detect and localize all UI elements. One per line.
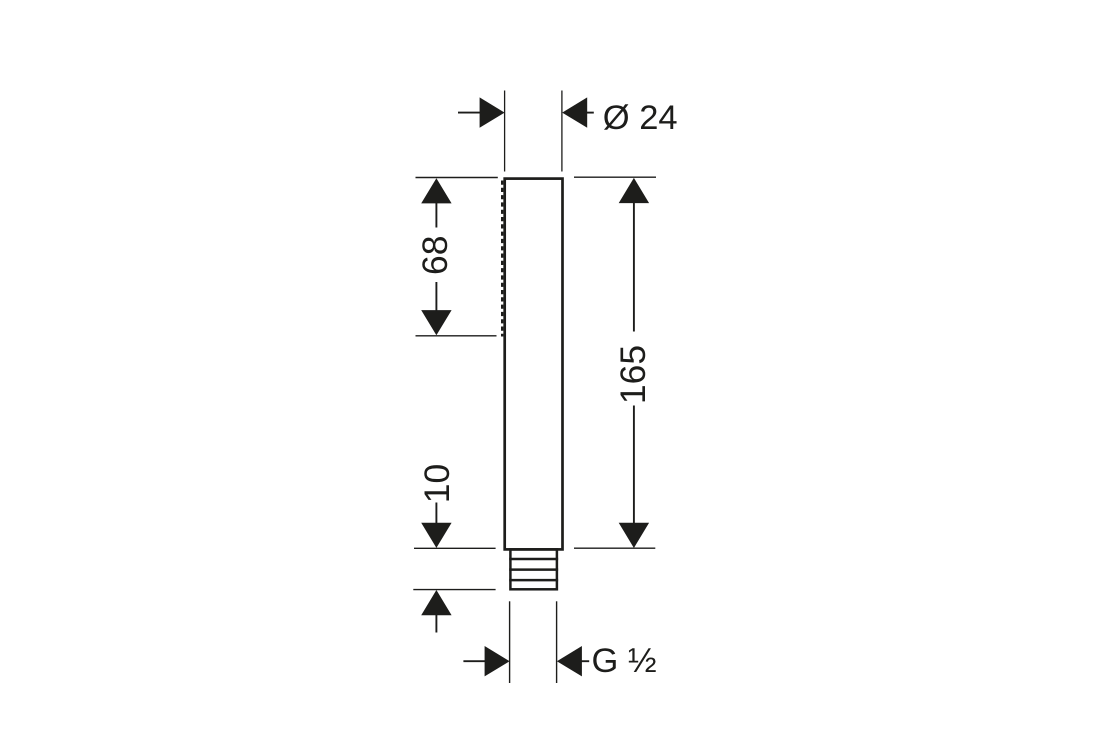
dim 68 lower tail [435,282,437,311]
dim D24 right arrow tail stub [587,112,594,114]
shower handle body outline [505,179,563,550]
dim 68 top reference line [416,177,498,179]
dim 165 down arrowhead [619,523,649,548]
dim G1/2 right-pointing arrowhead [485,646,510,676]
svg-text:G ½: G ½ [592,642,657,680]
dim G1/2 left extension line [509,601,511,683]
svg-text:Ø 24: Ø 24 [603,99,678,137]
dim 165 top reference line [574,176,656,178]
thread crest line 3 [509,579,558,582]
svg-text:10: 10 [417,464,457,504]
svg-text:165: 165 [613,345,653,404]
dim D24 right arrowhead [562,97,587,127]
dim 68 upper tail [435,202,437,228]
G1/2 thread connector body [510,549,557,589]
dim 68 up arrowhead [421,178,451,203]
dim D24 right extension line [561,91,563,172]
dim 10 bottom reference line [413,589,495,591]
spray face nozzle dashed line [501,181,503,337]
thread crest line 2 [509,568,558,571]
dim D24 left arrow tail [458,112,481,114]
dim D24 left arrowhead [480,97,505,127]
dim 68 down arrowhead [421,310,451,335]
dim 10 lower tail [435,615,437,633]
dim 68 bottom reference line [416,335,497,337]
dim G1/2 left arrow tail [463,660,485,662]
dim G1/2 right arrow tail stub [581,660,589,662]
dim 165 upper tail [633,202,635,332]
svg-text:68: 68 [415,235,455,275]
dim 165 lower tail [633,406,635,524]
dim 165 up arrowhead [619,178,649,203]
dim 10 upper tail [435,503,437,524]
dim G1/2 left-pointing arrowhead [557,646,582,676]
dim 165 bottom reference line [574,547,655,549]
dim 10 top reference line [414,547,496,549]
dim D24 left extension line [504,91,506,172]
dim G1/2 right extension line [556,601,558,683]
dim 10 up arrowhead below [421,590,451,615]
thread crest line 1 [509,558,558,561]
dim 10 down arrowhead [421,523,451,548]
